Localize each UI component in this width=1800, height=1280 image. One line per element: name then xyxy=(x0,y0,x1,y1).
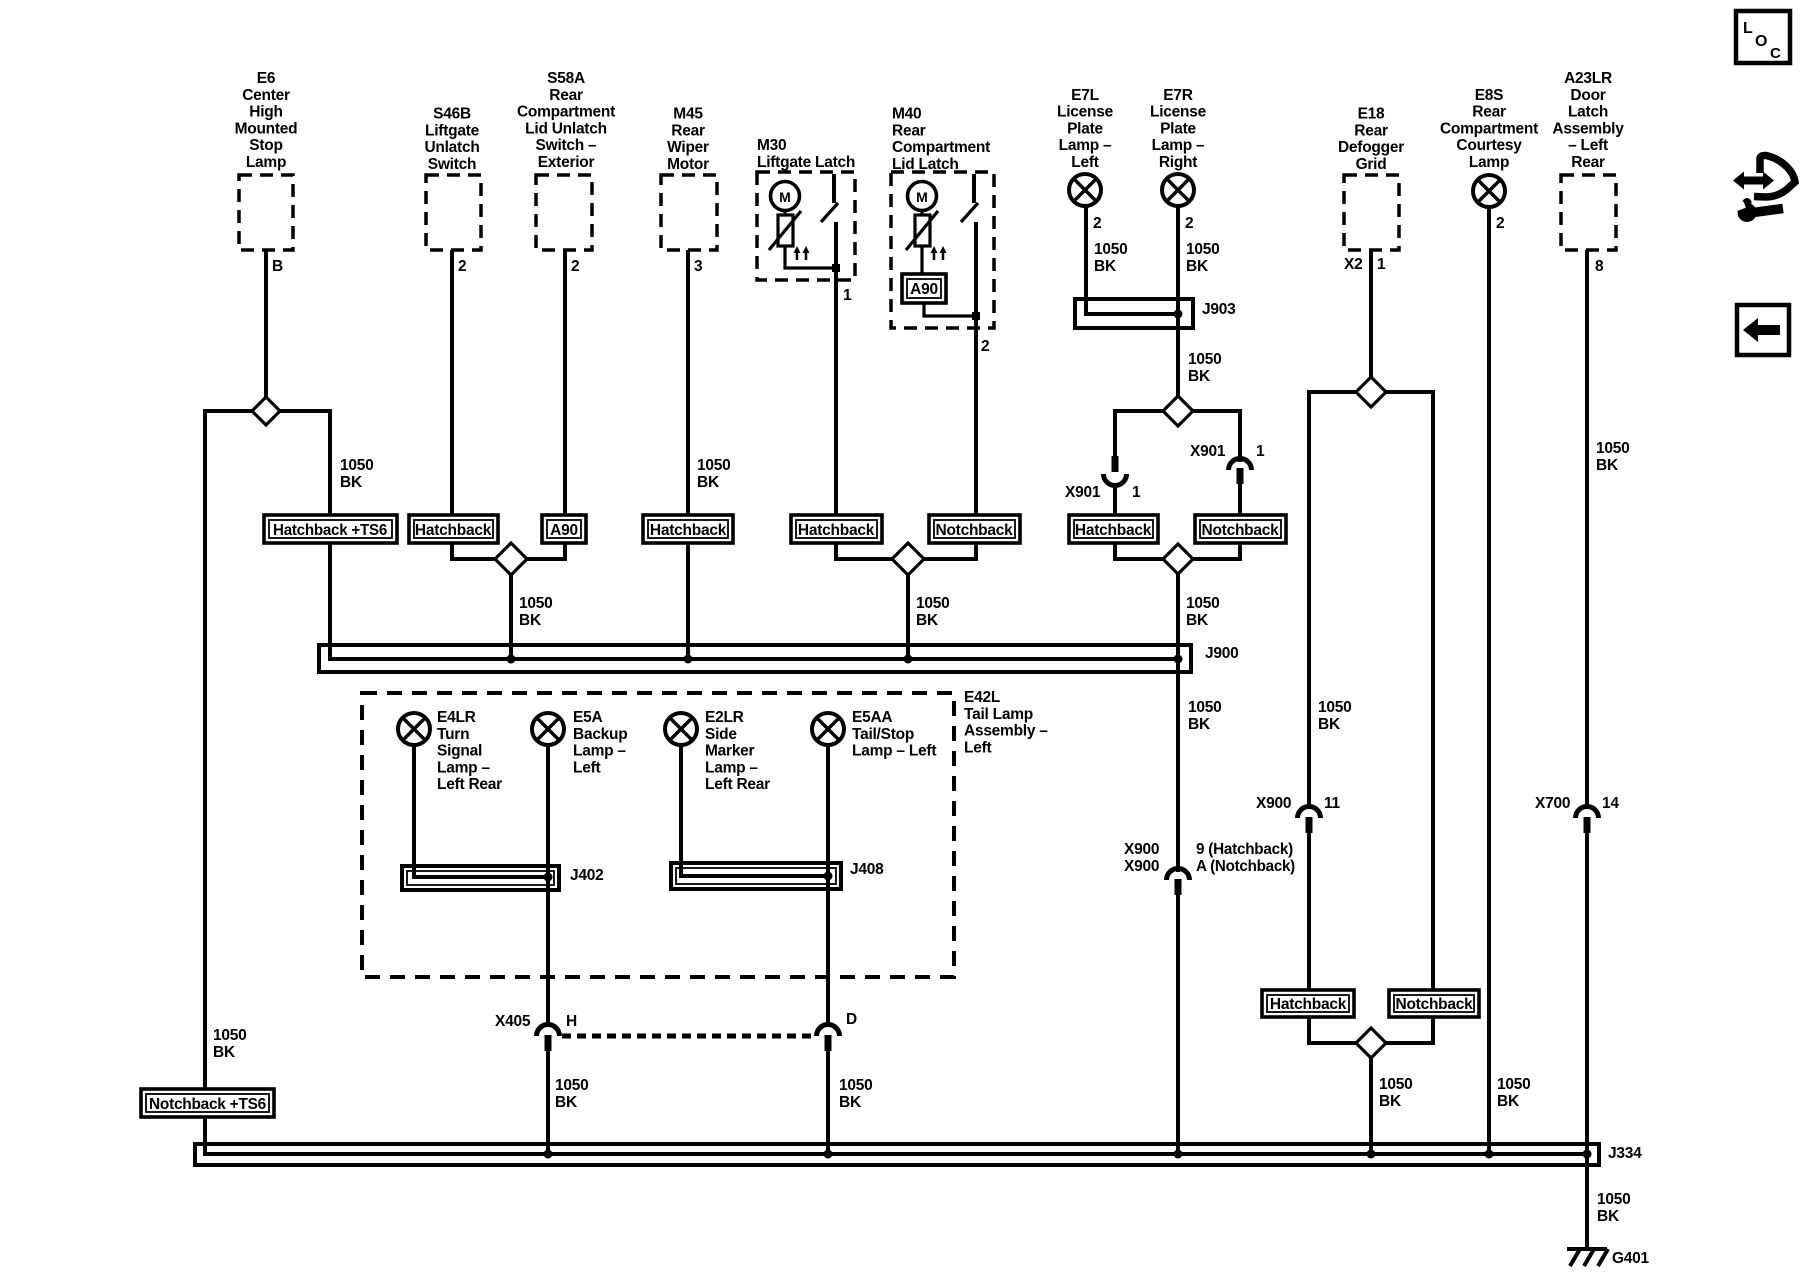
svg-text:X901: X901 xyxy=(1190,443,1226,460)
component A23LR dashed box xyxy=(1561,175,1616,250)
lamp E8S xyxy=(1473,175,1505,207)
diamond S46B/S58A xyxy=(495,543,527,575)
wire X900 E18 down to Hatchback xyxy=(1307,832,1311,1045)
wire E18 Notchback to lower diamond xyxy=(1385,1041,1433,1045)
E42L dashed box xyxy=(362,693,954,977)
wire S58A pin 2 down xyxy=(563,250,567,561)
svg-text:B: B xyxy=(272,258,283,275)
box Hatchback E18 xyxy=(1262,990,1354,1017)
junction M40 xyxy=(972,312,980,320)
motor element resistor M40 xyxy=(920,210,923,215)
box Notchback +TS6 xyxy=(141,1089,274,1117)
wire J402 internal xyxy=(412,875,548,879)
motor element resistor M30 xyxy=(783,210,786,215)
svg-text:1: 1 xyxy=(1377,256,1386,273)
svg-text:A90: A90 xyxy=(550,522,578,539)
svg-text:O: O xyxy=(1755,33,1767,50)
wire S46B pin 2 down xyxy=(450,250,454,561)
component M45 dashed box xyxy=(661,175,717,250)
svg-text:2: 2 xyxy=(571,258,579,275)
diamond E18 lower xyxy=(1356,1028,1386,1058)
svg-text:A90: A90 xyxy=(910,281,938,298)
ground G401 xyxy=(1567,1249,1608,1266)
connector X901 right xyxy=(1229,459,1252,470)
switch M30 xyxy=(832,174,836,203)
switch M40 xyxy=(972,174,976,203)
wire E7R pin 2 down through J903 to diamond xyxy=(1176,207,1180,397)
wire D down to J334 xyxy=(826,1050,830,1156)
connector X900 E7 xyxy=(1167,869,1190,880)
box Hatchback E7 xyxy=(1069,515,1158,543)
wire S58A to diamond xyxy=(526,557,565,561)
box Notchback E7 xyxy=(1195,515,1286,543)
svg-text:2: 2 xyxy=(1496,215,1504,232)
lamp E2LR xyxy=(665,713,697,745)
wire Hatchback to lower diamond xyxy=(1115,557,1164,561)
svg-text:D: D xyxy=(846,1011,857,1028)
diamond E7 lower xyxy=(1163,544,1193,574)
splice J402 dot xyxy=(544,873,553,882)
svg-text:3: 3 xyxy=(694,258,703,275)
svg-text:Hatchback: Hatchback xyxy=(415,522,492,539)
svg-text:Hatchback +TS6: Hatchback +TS6 xyxy=(273,522,388,539)
icon tools xyxy=(1732,155,1795,222)
wire E2LR lamp to J408 xyxy=(679,745,683,878)
wire E5A lamp down through J402 to X405 xyxy=(546,745,550,1027)
wire X900 down to J334 xyxy=(1176,893,1180,1156)
wire X700 down to J334 and ground xyxy=(1585,832,1589,1249)
box Notchback E18 xyxy=(1389,990,1479,1017)
diamond M30/M40 xyxy=(892,543,924,575)
splice J903 dot xyxy=(1174,310,1183,319)
svg-text:9 (Hatchback): 9 (Hatchback) xyxy=(1196,841,1293,858)
arrows M40 xyxy=(934,250,943,260)
connector X900 E18 xyxy=(1298,807,1321,818)
lamp E5A xyxy=(532,713,564,745)
icon LOC box xyxy=(1736,11,1790,63)
wire E5AA lamp down through J408 to D xyxy=(826,745,830,1027)
wire M40 to diamond xyxy=(923,557,976,561)
splice J900 dots xyxy=(507,655,516,664)
wire M30 to diamond xyxy=(836,557,893,561)
svg-text:2: 2 xyxy=(458,258,466,275)
wire X901 left to Hatchback xyxy=(1113,484,1117,561)
svg-text:G401: G401 xyxy=(1612,1250,1650,1267)
A90 box xyxy=(902,274,946,303)
wire S46B to diamond xyxy=(452,557,496,561)
svg-text:Hatchback: Hatchback xyxy=(798,522,875,539)
svg-text:J402: J402 xyxy=(570,867,603,884)
wire Hatchback +TS6 branch to J900 xyxy=(328,409,332,661)
diamond E6 xyxy=(252,397,280,425)
wire E6 pin B to diamond xyxy=(264,250,268,398)
svg-text:M: M xyxy=(779,189,791,205)
wire E18 Hatchback to lower diamond xyxy=(1309,1041,1357,1045)
lamp E7R xyxy=(1162,174,1194,206)
wire E18 diamond right branch xyxy=(1385,392,1433,1045)
svg-text:J408: J408 xyxy=(850,861,884,878)
splice J408 dot xyxy=(824,872,833,881)
wire M30 pin 1 down xyxy=(834,222,838,561)
arrows M30 xyxy=(797,250,806,260)
component S46B dashed box xyxy=(426,175,481,250)
lamp E5AA xyxy=(812,713,844,745)
wire E7 lower diamond to J900 xyxy=(1176,573,1180,661)
svg-text:A (Notchback): A (Notchback) xyxy=(1196,858,1295,875)
svg-text:H: H xyxy=(566,1013,577,1030)
svg-text:L: L xyxy=(1743,20,1753,37)
motor M inside M30 xyxy=(771,182,800,211)
svg-text:X901: X901 xyxy=(1065,484,1101,501)
svg-text:J334: J334 xyxy=(1608,1145,1642,1162)
svg-text:2: 2 xyxy=(981,338,989,355)
svg-text:1: 1 xyxy=(843,287,852,304)
svg-text:X900X900: X900X900 xyxy=(1124,841,1159,875)
svg-text:14: 14 xyxy=(1602,795,1619,812)
wire X901 right to Notchback xyxy=(1238,482,1242,561)
wire J408 internal xyxy=(679,874,828,878)
svg-text:M: M xyxy=(916,189,928,205)
wire A90 to junction xyxy=(924,303,976,316)
wire J900 internal bus xyxy=(328,657,1178,661)
component S58A dashed box xyxy=(536,175,592,250)
svg-text:8: 8 xyxy=(1595,258,1604,275)
box Hatchback +TS6 xyxy=(264,515,397,543)
svg-text:Hatchback: Hatchback xyxy=(1270,996,1347,1013)
lamp E7L xyxy=(1069,174,1101,206)
svg-text:X900: X900 xyxy=(1256,795,1291,812)
svg-text:Notchback: Notchback xyxy=(936,522,1014,539)
wire E7L pin 2 into J903 xyxy=(1084,206,1088,316)
svg-text:11: 11 xyxy=(1324,795,1341,812)
component M40 dashed box xyxy=(891,172,994,328)
svg-text:J903: J903 xyxy=(1202,301,1236,318)
wire S46B/S58A diamond to J900 xyxy=(509,573,513,659)
svg-text:Hatchback: Hatchback xyxy=(650,522,727,539)
wire E4LR lamp to J402 xyxy=(412,745,416,879)
box Hatchback M30 xyxy=(791,515,882,543)
connector D xyxy=(817,1025,840,1037)
component E6 dashed box xyxy=(239,175,293,250)
svg-text:Hatchback: Hatchback xyxy=(1075,522,1152,539)
box Hatchback S46B xyxy=(409,515,498,543)
splice J900 box xyxy=(319,645,1191,672)
component E18 dashed box xyxy=(1344,175,1399,250)
wire E18 diamond left branch xyxy=(1309,392,1357,808)
svg-text:Notchback: Notchback xyxy=(1396,996,1474,1013)
svg-text:X405: X405 xyxy=(495,1013,531,1030)
wire diamond horizontal right xyxy=(279,409,330,413)
wire E8S pin 2 to J334 xyxy=(1487,207,1491,1156)
svg-text:J900: J900 xyxy=(1205,645,1238,662)
svg-text:X700: X700 xyxy=(1535,795,1570,812)
wire left trunk down to J334 xyxy=(205,409,1588,1154)
wire M40 pin 2 down xyxy=(974,222,978,561)
splice J334 box xyxy=(195,1144,1599,1165)
box A90 config xyxy=(542,515,586,543)
svg-text:Notchback: Notchback xyxy=(1202,522,1280,539)
wire E18 pin down to diamond xyxy=(1369,250,1373,379)
diamond E18 upper xyxy=(1356,377,1386,407)
lamp E4LR xyxy=(398,713,430,745)
splice J408 box xyxy=(671,863,841,889)
dashed link X405 to D xyxy=(562,1034,814,1039)
splice J402 box xyxy=(402,866,559,890)
connector X700 xyxy=(1576,807,1599,818)
splice J334 dots xyxy=(544,1150,553,1159)
wire M30 motor to junction xyxy=(785,246,836,268)
wire E18 lower diamond to J334 xyxy=(1369,1057,1373,1156)
wire M45 pin 3 to J900 xyxy=(686,250,690,659)
box Hatchback M45 xyxy=(643,515,733,543)
svg-text:1: 1 xyxy=(1132,484,1141,501)
wire Notchback to lower diamond xyxy=(1192,557,1240,561)
svg-text:2: 2 xyxy=(1185,215,1193,232)
svg-text:2: 2 xyxy=(1093,215,1101,232)
wire E7 diamond left branch xyxy=(1115,411,1164,456)
box Notchback M40 xyxy=(929,515,1020,543)
wire diamond horizontal left xyxy=(205,409,253,413)
wire J900 down to X900 xyxy=(1176,659,1180,872)
wire X405 down to J334 xyxy=(546,1050,550,1156)
svg-text:1: 1 xyxy=(1256,443,1265,460)
wire M40 motor to A90 xyxy=(920,246,923,276)
svg-text:X2: X2 xyxy=(1344,256,1362,273)
wire A23LR pin 8 down to X700 xyxy=(1585,250,1589,808)
diamond E7 upper xyxy=(1163,396,1193,426)
motor M inside M40 xyxy=(908,182,937,211)
svg-text:C: C xyxy=(1770,45,1781,62)
junction M30 xyxy=(832,264,840,272)
icon back arrow box xyxy=(1737,305,1789,355)
svg-text:Notchback +TS6: Notchback +TS6 xyxy=(149,1096,267,1113)
wire E7 diamond right branch xyxy=(1192,411,1240,462)
wire J903 internal xyxy=(1084,312,1178,316)
wire M30/M40 diamond to J900 xyxy=(906,573,910,659)
connector X405 xyxy=(537,1025,560,1037)
component M30 dashed box xyxy=(757,172,855,280)
connector X901 left xyxy=(1112,456,1119,472)
splice J903 box xyxy=(1075,299,1193,328)
